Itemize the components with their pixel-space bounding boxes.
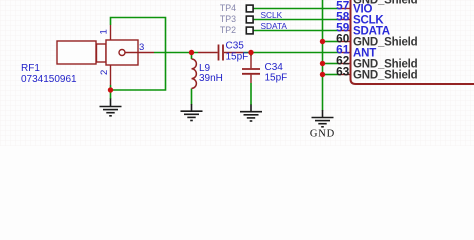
svg-text:15pF: 15pF: [265, 73, 288, 84]
svg-text:63: 63: [336, 65, 350, 79]
svg-text:SCLK: SCLK: [261, 10, 283, 20]
svg-text:C35: C35: [226, 41, 245, 52]
svg-text:GND_Shield: GND_Shield: [353, 70, 418, 82]
svg-text:TP2: TP2: [220, 25, 236, 35]
svg-text:3: 3: [139, 42, 144, 53]
svg-text:TP3: TP3: [220, 14, 236, 24]
svg-text:SDATA: SDATA: [261, 21, 288, 31]
svg-text:39nH: 39nH: [199, 73, 223, 84]
svg-text:0734150961: 0734150961: [21, 74, 77, 85]
svg-text:GND: GND: [310, 129, 335, 140]
svg-text:2: 2: [99, 70, 110, 75]
svg-text:C34: C34: [265, 62, 284, 73]
svg-text:RF1: RF1: [21, 63, 40, 74]
svg-text:1: 1: [99, 29, 110, 34]
svg-text:TP4: TP4: [220, 3, 236, 13]
svg-text:15pF: 15pF: [226, 52, 249, 63]
